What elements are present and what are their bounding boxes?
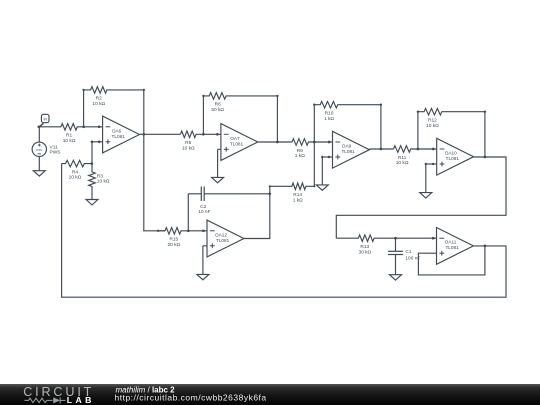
junction C2 branch	[187, 229, 190, 232]
capacitor C1	[395, 238, 397, 251]
junction OA10 output	[484, 156, 487, 159]
svg-text:50 kΩ: 50 kΩ	[211, 107, 224, 113]
svg-text:R5: R5	[185, 140, 191, 146]
junction R2 branch	[82, 125, 85, 128]
wire R15 to OA12	[203, 230, 207, 232]
ground for OA9	[321, 184, 323, 186]
pin dot OA6 minus	[98, 125, 101, 128]
wire OA11 output loop	[62, 164, 506, 298]
op-amp OA9 TL081	[333, 131, 370, 168]
node A junction (V11/R1)	[38, 125, 41, 128]
corner dot R12 left	[417, 111, 419, 113]
resistor R1	[39, 124, 99, 131]
svg-text:R15: R15	[169, 237, 178, 243]
svg-text:http://circuitlab.com/cwbb2638: http://circuitlab.com/cwbb2638yk6fa	[115, 393, 267, 403]
svg-text:TL081: TL081	[341, 149, 355, 154]
op-amp OA7 TL081	[221, 124, 258, 161]
svg-text:1 kΩ: 1 kΩ	[293, 197, 303, 203]
svg-text:10 kΩ: 10 kΩ	[92, 101, 105, 107]
junction OA6 output	[142, 133, 145, 136]
svg-text:10 kΩ: 10 kΩ	[97, 179, 110, 185]
wire R14 node down	[313, 142, 315, 186]
corner dot R14 left	[269, 185, 271, 187]
svg-text:OA9: OA9	[342, 144, 352, 149]
wire OA7 plus to ground	[218, 148, 221, 150]
junction R3/R4	[90, 162, 93, 165]
ground for C1	[395, 273, 397, 275]
wire R2 branch up	[83, 90, 85, 127]
op-amp OA12 TL081	[207, 220, 244, 257]
junction OA7 output	[276, 141, 279, 144]
pin dot OA10 minus	[432, 148, 435, 151]
svg-text:TL081: TL081	[112, 134, 126, 139]
svg-text:TL081: TL081	[230, 141, 244, 146]
junction R12 branch	[417, 148, 420, 151]
ground for V11	[38, 157, 40, 171]
wire R6 branch up	[202, 96, 204, 134]
svg-text:CSV: CSV	[36, 148, 43, 152]
logo zigzag and diode	[25, 397, 66, 403]
resistor R9	[292, 139, 329, 146]
corner dot R6 left	[202, 95, 204, 97]
resistor R2	[84, 87, 144, 94]
op-amp OA6 TL081	[103, 116, 140, 153]
svg-text:10 kΩ: 10 kΩ	[69, 175, 82, 181]
svg-text:TL081: TL081	[446, 156, 460, 161]
resistor R12	[418, 108, 485, 115]
svg-text:OA10: OA10	[445, 151, 457, 156]
junction C2 right	[268, 192, 271, 195]
corner dot OA9 plus	[321, 156, 323, 158]
resistor R6	[203, 93, 277, 100]
svg-text:1 kΩ: 1 kΩ	[324, 116, 334, 122]
svg-text:OA11: OA11	[445, 240, 457, 245]
svg-text:R3: R3	[97, 173, 103, 179]
wire R12 branch up	[417, 112, 419, 149]
svg-text:R14: R14	[293, 192, 302, 198]
wire R10 down to OA9 output	[380, 105, 382, 149]
svg-text:C2: C2	[200, 204, 206, 210]
pin dot OA12 minus	[202, 229, 205, 232]
wire OA10 output loop	[336, 157, 506, 238]
pin dot OA9 plus	[328, 156, 330, 158]
svg-text:OA6: OA6	[112, 128, 122, 133]
junction C1	[394, 237, 397, 240]
wire OA6 plus input	[92, 141, 103, 143]
pin dot OA9 minus	[328, 141, 331, 144]
resistor R3	[89, 164, 96, 200]
svg-text:V11: V11	[50, 144, 59, 150]
svg-text:10 kΩ: 10 kΩ	[396, 160, 409, 166]
svg-text:10 kΩ: 10 kΩ	[182, 145, 195, 151]
wire R9 to OA9	[329, 141, 332, 143]
corner dot OA10 plus	[425, 163, 427, 165]
wire OA12 plus to ground	[203, 245, 207, 247]
wire R11 to OA10	[433, 148, 436, 150]
svg-text:R6: R6	[215, 102, 221, 108]
svg-text:10 kΩ: 10 kΩ	[426, 123, 439, 129]
wire OA9 plus to ground	[322, 156, 332, 158]
corner dot R10 right	[380, 104, 382, 106]
wire OA9 output row	[369, 148, 393, 150]
svg-text:PWS: PWS	[50, 150, 61, 156]
wire OA12 output up to R14	[244, 186, 270, 238]
corner dot R2 right	[143, 89, 145, 91]
junction OA11 output	[484, 245, 487, 248]
pin dot OA10 plus	[432, 163, 434, 165]
junction OA6 plus	[91, 140, 94, 143]
wire R13 to OA11	[433, 237, 436, 239]
svg-text:TL081: TL081	[445, 245, 459, 250]
wire R6 down to OA7 output	[276, 96, 278, 142]
wire R12 down to OA10 output	[484, 112, 486, 157]
svg-text:10 nF: 10 nF	[198, 209, 210, 215]
svg-text:OA7: OA7	[230, 136, 240, 141]
ground for OA12	[202, 273, 204, 275]
footer bar	[0, 384, 540, 405]
ground for OA10	[425, 191, 427, 193]
junction R10/R14 node	[313, 141, 316, 144]
ground for R3	[91, 198, 93, 201]
svg-text:in: in	[43, 117, 47, 122]
op-amp OA10 TL081	[437, 138, 474, 175]
joint dot R15 wire	[157, 230, 159, 232]
svg-text:30 kΩ: 30 kΩ	[358, 249, 371, 255]
svg-text:R1: R1	[66, 133, 72, 139]
svg-text:10 kΩ: 10 kΩ	[63, 138, 76, 144]
junction OA9 output	[380, 148, 383, 151]
voltage source V11 PWS	[38, 127, 40, 142]
svg-text:R12: R12	[428, 118, 437, 124]
resistor R11	[394, 146, 434, 153]
node flag in	[39, 123, 43, 126]
wire plus node down to R3/R4	[91, 142, 93, 164]
svg-text:R9: R9	[297, 148, 303, 154]
resistor R4	[62, 160, 92, 167]
resistor R15	[158, 228, 203, 235]
wire R1 to OA6 minus	[99, 126, 103, 128]
pin dot OA11 minus	[432, 237, 435, 240]
svg-text:C1: C1	[405, 249, 411, 255]
svg-text:OA12: OA12	[215, 232, 227, 237]
junction R6 branch	[202, 133, 205, 136]
wire OA11 plus feedback loop	[418, 246, 485, 275]
svg-text:R11: R11	[398, 155, 407, 161]
resistor R10	[314, 101, 381, 108]
op-amp OA11 TL081	[437, 228, 474, 265]
svg-text:R2: R2	[96, 96, 102, 102]
corner dot R6 right	[276, 95, 278, 97]
ground for OA7	[217, 176, 219, 178]
svg-text:1 kΩ: 1 kΩ	[295, 153, 305, 159]
pin dot OA6 plus	[98, 140, 101, 143]
corner dot R12 right	[484, 111, 486, 113]
svg-text:LAB: LAB	[67, 395, 95, 405]
corner dot R10 left	[313, 104, 315, 106]
wire R2 down to OA6 output	[143, 90, 145, 134]
svg-text:R10: R10	[325, 111, 334, 117]
svg-text:20 kΩ: 20 kΩ	[167, 242, 180, 248]
wire OA10 plus to ground	[426, 163, 437, 165]
wire R5 to OA7	[217, 133, 221, 135]
resistor R13	[336, 235, 433, 242]
corner dot R2 left	[82, 89, 84, 91]
resistor R5	[180, 131, 217, 138]
svg-text:R4: R4	[72, 169, 78, 175]
svg-text:TL081: TL081	[216, 238, 230, 243]
resistor R14	[270, 183, 315, 190]
wire OA6 output down to R15	[144, 134, 165, 231]
wire OA7 output row	[258, 141, 292, 143]
svg-text:R13: R13	[360, 244, 369, 250]
corner dot R14 right	[313, 185, 315, 187]
wire OA6 output row	[140, 133, 181, 135]
pin dot OA7 minus	[216, 133, 219, 136]
wire R10 branch up	[313, 105, 315, 142]
capacitor C2	[187, 194, 189, 231]
